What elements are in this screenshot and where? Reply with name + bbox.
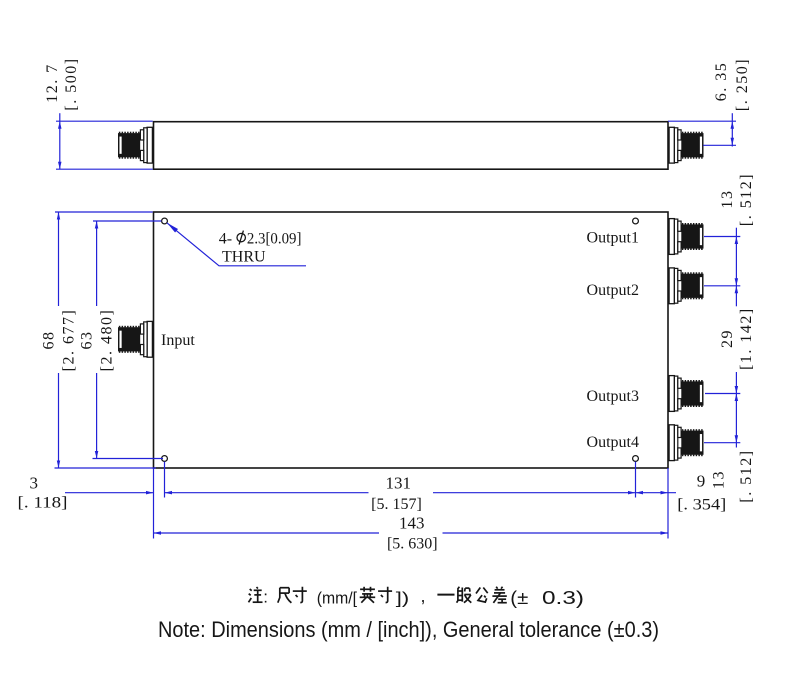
- output4 dim leader: [704, 442, 740, 444]
- dim text 29: [719, 329, 736, 348]
- svg-text:131: 131: [385, 473, 411, 492]
- svg-text:[. 118]: [. 118]: [18, 494, 68, 511]
- dim text [2.677]: [61, 309, 78, 372]
- dim 143 arrow left: [154, 531, 162, 535]
- input connector: [118, 321, 152, 357]
- output connector 3: [669, 376, 703, 412]
- chain arrow up at O1: [735, 237, 739, 245]
- dim 63 dimension line upper: [96, 221, 98, 306]
- chain arrow up at O3: [735, 394, 739, 402]
- svg-text:[5. 157]: [5. 157]: [371, 496, 422, 513]
- dim 63 arrow down: [95, 451, 99, 459]
- dim 63 arrow up: [95, 221, 99, 229]
- svg-text:[5. 630]: [5. 630]: [387, 536, 438, 553]
- dim text [2.480]: [99, 309, 116, 372]
- extension below hole right: [635, 462, 637, 498]
- svg-text:Input: Input: [161, 332, 195, 349]
- output2 dim leader: [704, 285, 740, 287]
- hole callout diameter symbol: [237, 231, 245, 245]
- svg-text:Output4: Output4: [587, 434, 639, 451]
- note line1 hanzi 一: [437, 594, 454, 596]
- svg-text:[. 500]: [. 500]: [63, 57, 80, 110]
- dim 6.35 dimension line: [731, 113, 733, 146]
- svg-text:2.3[0.09]: 2.3[0.09]: [247, 231, 302, 248]
- dim 131 arrow right: [628, 491, 636, 495]
- extension below body left edge: [153, 468, 155, 539]
- side view body outline: [154, 122, 669, 170]
- note line1 hanzi 差: [496, 587, 497, 589]
- hole callout arrow: [167, 223, 178, 233]
- svg-text:3: 3: [30, 473, 39, 492]
- dim 9 arrow right: [661, 491, 669, 495]
- dim 3 arrow right: [146, 491, 154, 495]
- svg-text:,: ,: [421, 586, 426, 606]
- dim text 68: [41, 331, 58, 350]
- dim 12.7 extension line bottom: [56, 168, 153, 170]
- svg-text:(mm/[: (mm/[: [317, 589, 358, 608]
- svg-text:68: 68: [41, 331, 58, 350]
- mounting hole bottom-left: [162, 456, 168, 462]
- dim 63 dimension line lower: [96, 373, 98, 459]
- output connector 4: [669, 425, 703, 461]
- dim 9 arrow left: [636, 491, 644, 495]
- svg-text:THRU: THRU: [222, 248, 266, 265]
- dim 131 line right: [433, 492, 636, 494]
- dim 6.35 arrow up: [731, 121, 735, 129]
- dim 131 line left: [165, 492, 369, 494]
- hole callout leader: [167, 223, 306, 266]
- dim 68 arrow up: [57, 212, 60, 220]
- dim 68 dimension line lower: [58, 373, 60, 468]
- svg-text:Output3: Output3: [587, 388, 639, 405]
- note line1 hanzi 英: [360, 588, 375, 590]
- mounting hole top-left: [162, 218, 168, 224]
- dim 6.35 arrow down: [731, 138, 735, 146]
- dim 9 line: [636, 492, 677, 494]
- svg-text:[. 354]: [. 354]: [677, 496, 726, 513]
- svg-text:[2. 677]: [2. 677]: [61, 309, 78, 372]
- dim 3 tail line: [65, 492, 154, 494]
- svg-text:4-: 4-: [219, 231, 232, 248]
- svg-text:Note: Dimensions (mm / [inch]): Note: Dimensions (mm / [inch]), General …: [158, 617, 659, 642]
- svg-text:9: 9: [697, 471, 706, 490]
- chain arrow up at O2: [735, 286, 739, 294]
- dim 143 line right: [443, 532, 669, 534]
- output connector 2: [669, 268, 703, 304]
- svg-text:Output2: Output2: [587, 282, 639, 299]
- right chain dimension line upper: [735, 228, 737, 307]
- svg-text:[2. 480]: [2. 480]: [99, 309, 116, 372]
- svg-text:[. 512]: [. 512]: [738, 173, 755, 226]
- dim text [.512] bottom: [738, 449, 755, 502]
- svg-text:0.3): 0.3): [542, 587, 584, 608]
- note line1 hanzi 寸: [293, 590, 307, 592]
- svg-text:[. 250]: [. 250]: [734, 58, 751, 111]
- dim 63 extension top: [93, 220, 161, 222]
- chain arrow down at O4: [735, 435, 739, 443]
- svg-text:63: 63: [79, 331, 96, 350]
- dim 12.7 arrow up: [58, 121, 62, 129]
- extension below hole left: [164, 462, 166, 498]
- svg-text:Output1: Output1: [587, 229, 639, 246]
- svg-text:(±: (±: [510, 587, 528, 608]
- dim 68 extension top: [55, 211, 153, 213]
- output connector 1: [669, 219, 703, 255]
- dim 143 line left: [154, 532, 380, 534]
- dim text 13 bottom: [711, 470, 728, 489]
- side view input connector J1 (left): [118, 127, 152, 163]
- svg-text:12. 7: 12. 7: [44, 63, 61, 103]
- dim 6.35 leader line at connector: [703, 144, 736, 146]
- output3 dim leader: [705, 393, 740, 395]
- note line1 hanzi 尺: [280, 587, 289, 589]
- dim 63 extension bottom: [93, 458, 164, 460]
- right chain dimension line lower: [735, 372, 737, 448]
- dim text [.500]: [63, 57, 80, 110]
- dim 68 arrow down: [57, 461, 60, 469]
- dim text 63: [79, 331, 96, 350]
- note line1 hanzi 注: [250, 589, 252, 591]
- note line1 hanzi 寸: [378, 590, 392, 592]
- mounting hole top-right: [633, 218, 639, 224]
- dim 6.35 extension line top: [668, 120, 736, 122]
- svg-text:143: 143: [399, 514, 425, 533]
- svg-text:]): ]): [396, 589, 409, 608]
- note line1 hanzi 般: [458, 587, 460, 589]
- svg-text:[. 512]: [. 512]: [738, 449, 755, 502]
- dim 143 arrow right: [661, 531, 669, 535]
- note line1 hanzi 公: [476, 588, 480, 594]
- mounting hole bottom-right: [633, 456, 639, 462]
- dim text 12.7: [44, 63, 61, 103]
- extension below body right edge: [667, 468, 669, 539]
- svg-text:13: 13: [719, 190, 736, 209]
- chain arrow down at O2: [735, 278, 739, 286]
- dim 12.7 dimension line: [59, 113, 61, 169]
- svg-text:29: 29: [719, 329, 736, 348]
- dim text 13 top: [719, 190, 736, 209]
- dim text [.512] top: [738, 173, 755, 226]
- front view body outline: [154, 212, 669, 468]
- output1 dim leader: [704, 236, 740, 238]
- dim 68 extension bottom: [55, 467, 157, 469]
- dim 12.7 arrow down: [58, 162, 62, 170]
- dim text 6.35: [713, 62, 730, 102]
- dim 12.7 extension line top: [56, 120, 153, 122]
- chain arrow down at O3: [735, 386, 739, 394]
- dim text [.250]: [734, 58, 751, 111]
- dim text [1.142]: [738, 307, 755, 370]
- svg-text:[1. 142]: [1. 142]: [738, 307, 755, 370]
- svg-text:13: 13: [711, 470, 728, 489]
- svg-text:6. 35: 6. 35: [713, 62, 730, 102]
- dim 131 arrow left: [165, 491, 173, 495]
- svg-text::: :: [263, 588, 268, 607]
- dim 68 dimension line upper: [58, 212, 60, 306]
- side view output connector (right): [669, 127, 703, 163]
